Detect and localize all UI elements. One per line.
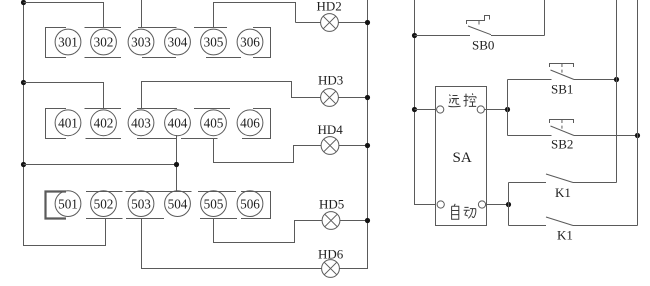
svg-text:HD2: HD2 [317, 0, 342, 14]
label remote (yuan kong) hand-drawn glyphs [448, 93, 476, 106]
terminal 404 [165, 110, 191, 136]
terminal 401 [55, 110, 81, 136]
wire right vertical B [637, 0, 639, 226]
terminal row 2 rail lines [46, 109, 271, 139]
terminal auto right [478, 201, 485, 208]
svg-text:HD6: HD6 [318, 247, 344, 262]
node bus row3 junction [21, 162, 26, 167]
node HD4 junction [365, 143, 370, 148]
terminal 302 [91, 29, 117, 55]
node right bus SB0 junction [412, 33, 417, 38]
svg-text:306: 306 [240, 35, 260, 50]
svg-text:406: 406 [240, 116, 260, 131]
svg-text:506: 506 [240, 196, 260, 211]
wire 503 to HD6 [142, 219, 322, 269]
wire remote row [415, 109, 508, 111]
wire link 305 to HD2 [214, 3, 296, 28]
svg-text:404: 404 [168, 116, 188, 131]
node K1 branch junction [506, 202, 511, 207]
svg-text:301: 301 [58, 35, 78, 50]
node HD2 junction [365, 20, 370, 25]
svg-text:502: 502 [94, 196, 114, 211]
lamp HD2 [321, 14, 339, 32]
terminal 406 [237, 110, 263, 136]
svg-text:405: 405 [204, 116, 224, 131]
relay contact K1 lower [509, 217, 638, 226]
svg-text:SB2: SB2 [551, 137, 573, 152]
svg-text:501: 501 [58, 196, 78, 211]
label auto (zi dong) hand-drawn glyphs [452, 204, 476, 219]
terminal remote left [437, 106, 444, 113]
terminal 501 [55, 191, 81, 217]
svg-text:403: 403 [131, 116, 151, 131]
wire 405 to HD4 [214, 139, 322, 163]
node SB branch junction [505, 107, 510, 112]
terminal 403 [128, 110, 154, 136]
lamp HD3 [321, 89, 339, 107]
svg-text:HD5: HD5 [319, 197, 344, 212]
node bus top junction [21, 0, 26, 5]
lamp HD4 [321, 137, 339, 155]
wire riser 303 from top edge [141, 0, 143, 28]
node right bus remote junction [412, 107, 417, 112]
node feed row3 junction [174, 162, 179, 167]
wire feed row3 [24, 164, 177, 166]
lamp HD5 [322, 212, 340, 230]
wire left bus [24, 0, 106, 246]
wire SB branch vertical [507, 80, 509, 136]
wire HD4 right [339, 145, 368, 147]
terminal 405 [201, 110, 227, 136]
wire K1 branch vertical [508, 183, 510, 226]
node HD3 junction [365, 95, 370, 100]
lamp HD6 [322, 260, 340, 278]
wire link 404 to 504 [176, 135, 178, 192]
wire HD3 right [338, 97, 367, 99]
terminal 503 [128, 191, 154, 217]
wire feed row1 to 302 [24, 3, 104, 28]
svg-text:304: 304 [168, 35, 188, 50]
terminal 402 [91, 110, 117, 136]
terminal 306 [237, 29, 263, 55]
node HD5 junction [365, 218, 370, 223]
wire right bus [415, 0, 437, 205]
svg-text:SA: SA [453, 150, 472, 166]
svg-text:SB1: SB1 [551, 82, 573, 97]
pushbutton SB2 [508, 120, 638, 136]
wire 505 to HD5 [214, 219, 323, 243]
terminal 305 [201, 29, 227, 55]
relay contact K1 upper [509, 174, 617, 183]
svg-text:401: 401 [58, 116, 78, 131]
terminal 303 [128, 29, 154, 55]
svg-text:HD4: HD4 [318, 122, 344, 137]
svg-text:504: 504 [168, 196, 188, 211]
terminal 304 [165, 29, 191, 55]
selector switch SA box [436, 87, 487, 226]
terminal auto left [437, 201, 444, 208]
svg-text:303: 303 [131, 35, 151, 50]
svg-text:505: 505 [204, 196, 224, 211]
terminal row 3 rail lines [46, 192, 271, 219]
wire lamp collector [339, 0, 367, 269]
wire 403 to HD3 [142, 82, 321, 109]
svg-text:HD3: HD3 [318, 73, 343, 88]
terminal row 1 rail lines [46, 28, 271, 58]
terminal 504 [165, 191, 191, 217]
svg-text:402: 402 [94, 116, 114, 131]
svg-text:305: 305 [204, 35, 224, 50]
node SB2 right junction [635, 133, 640, 138]
terminal 502 [91, 191, 117, 217]
wire feed row2 to 402 [24, 83, 104, 109]
pushbutton SB0 [415, 0, 545, 36]
terminal 301 [55, 29, 81, 55]
wire HD5 right [340, 220, 368, 222]
terminal 506 [237, 191, 263, 217]
wire auto row right [486, 204, 509, 206]
wire right vertical A [616, 0, 618, 183]
svg-text:K1: K1 [557, 228, 573, 243]
terminal 505 [201, 191, 227, 217]
svg-text:SB0: SB0 [472, 38, 494, 53]
pushbutton SB1 [508, 64, 617, 80]
node SB1 right junction [614, 77, 619, 82]
svg-text:K1: K1 [555, 185, 571, 200]
node bus row2 junction [21, 80, 26, 85]
wire HD2 left and right [296, 22, 368, 24]
svg-text:503: 503 [131, 196, 151, 211]
terminal remote right [477, 106, 484, 113]
svg-text:302: 302 [94, 35, 114, 50]
